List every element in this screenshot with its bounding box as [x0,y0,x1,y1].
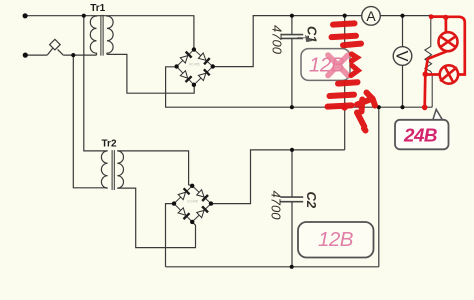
capacitor C2 top lead [291,150,293,197]
bridge 2 diamond outline [174,186,211,222]
svg-text:Tr2: Tr2 [102,139,117,150]
diode VD5 [178,188,189,199]
node C2 top [290,148,294,152]
svg-text:A: A [366,8,376,24]
capacitor C2 plates [281,197,304,202]
wire series link from mid bus down to bottom bus [166,107,379,267]
transformer Tr2 secondary winding [117,151,123,188]
svg-text:C2: C2 [304,192,319,209]
switch S1 lever [47,48,63,55]
diode VD4 [198,69,209,80]
diode VD2 [198,53,209,64]
wire Tr2 secondary bottom to bridge 2 AC bottom [117,188,195,248]
transformer Tr2 core [112,150,114,190]
svg-text:Tr1: Tr1 [90,3,105,14]
red node lamp1 top [443,15,448,20]
svg-text:12В: 12В [318,228,353,251]
lamp HL1 [439,32,458,51]
svg-text:24В: 24В [403,124,437,145]
red marker squiggle hooks beside box [351,54,358,76]
node bridge 1 plus [211,64,215,68]
node bridge 2 AC top [190,184,194,188]
callout box 12V top supply [301,49,350,81]
node C2 bottom on bottom bus [290,265,294,269]
transformer Tr1 secondary winding [107,16,113,55]
transformer Tr1 primary winding [90,16,96,55]
lamp HL2 [440,65,458,83]
wire bridge 2 plus output to parallel link [211,150,345,204]
bridge 1 diamond outline [177,50,213,85]
wire bridge 1 plus output up to top plus bus [213,16,431,67]
ammeter A [362,7,381,26]
node bridge 2 minus [172,201,176,205]
svg-text:KC405: KC405 [189,62,199,66]
red marker X over 12V label [328,55,348,76]
wire top bus from input terminal to bridge 1 AC top [25,16,194,50]
node junction Tr1 primary bottom [71,53,75,57]
red node lamps bottom [423,71,429,77]
red marker arrow pointing at series node [357,93,375,131]
diode VD7 [178,208,189,219]
callout box 24V [395,120,449,150]
svg-text:4700: 4700 [269,191,284,221]
node voltmeter on plus bus [400,14,404,18]
callout tail of 24V box [432,109,443,121]
capacitor C1 bottom lead [291,39,293,107]
node bridge 1 minus [174,64,178,68]
wire bridge 2 minus output to bottom bus [166,204,175,267]
red node on mid bus [422,105,428,111]
svg-text:V: V [393,50,411,61]
wire lower input to switch [25,54,47,56]
transformer Tr1 core [101,15,103,56]
callout leader arrow to 12V box 1 [298,35,313,42]
wire parallel feed down to Tr2 primary bottom [73,55,107,188]
node bridge 2 AC bottom [190,220,194,224]
capacitor C2 bottom lead [291,202,293,267]
node C1 top on plus bus [290,14,294,18]
node voltmeter bottom on mid bus [400,105,404,109]
red wire tap from plus bus to lamps [425,17,465,108]
capacitor C1 plates [281,35,304,39]
red node on parallel link mid bus [341,105,347,111]
callout box 12V bottom supply [298,222,374,258]
diode VD6 [197,190,208,201]
wire switch to Tr1 primary bottom [63,54,96,56]
node parallel link on mid bus [342,105,346,109]
voltmeter V [393,47,412,66]
voltmeter branch wire [402,16,404,108]
node bridge 1 AC bottom [192,83,196,87]
node junction Tr1 primary top [82,14,86,18]
wire parallel feed down to Tr2 primary top [84,16,108,151]
node series link on mid bus [377,105,381,109]
diode VD3 [180,71,191,82]
wire Tr1 secondary bottom to bridge 1 AC bottom [107,54,194,93]
red marker strike-through dashes over parallel link [328,23,362,106]
capacitor C1 top lead [291,16,293,34]
wire bridge 1 minus output to mid bus [166,67,433,107]
wire Tr2 secondary top to bridge 2 AC top [117,151,192,186]
node C1 bottom on mid bus [290,105,294,109]
diode VD8 [197,206,208,217]
node load tap end of plus bus [429,14,433,18]
node parallel link on plus bus [343,14,347,18]
diode VD1 [180,52,191,63]
svg-text:4700: 4700 [270,25,285,55]
svg-text:KC405: KC405 [187,200,197,204]
wire 12V parallel link vertical (crossed out in red) [344,16,346,150]
input terminal top [23,13,28,18]
switch S1 diamond [50,39,61,50]
node bridge 2 plus [209,201,213,205]
node bridge 1 AC top [192,47,196,51]
red node at plus bus tap [429,14,434,19]
transformer Tr2 primary winding [101,151,107,188]
input terminal bottom [23,53,28,58]
resistor R load zigzag [425,17,432,108]
